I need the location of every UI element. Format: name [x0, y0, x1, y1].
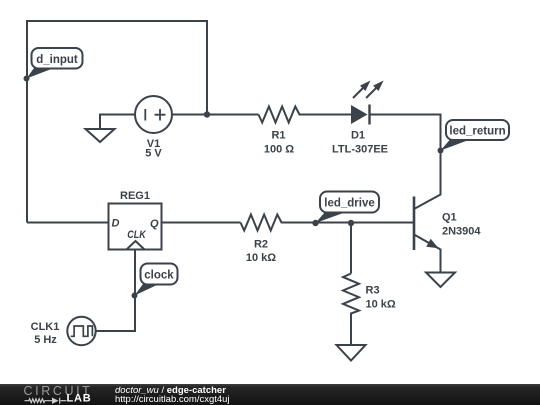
svg-text:LAB: LAB	[67, 393, 92, 405]
svg-text:R3: R3	[366, 285, 380, 297]
svg-text:10 kΩ: 10 kΩ	[246, 252, 276, 264]
svg-text:D: D	[112, 218, 120, 230]
svg-text:D1: D1	[351, 130, 365, 142]
svg-text:R2: R2	[254, 238, 268, 250]
svg-text:led_return: led_return	[449, 125, 505, 137]
svg-text:CLK: CLK	[127, 229, 146, 241]
svg-text:2N3904: 2N3904	[442, 226, 481, 238]
svg-text:REG1: REG1	[120, 190, 150, 202]
svg-text:100 Ω: 100 Ω	[264, 144, 294, 156]
svg-text:10 kΩ: 10 kΩ	[366, 299, 396, 311]
svg-text:Q1: Q1	[442, 212, 457, 224]
svg-text:R1: R1	[271, 130, 285, 142]
svg-text:CLK1: CLK1	[31, 321, 60, 333]
svg-text:d_input: d_input	[36, 54, 78, 66]
svg-text:5 Hz: 5 Hz	[34, 334, 57, 346]
svg-text:led_drive: led_drive	[324, 198, 375, 210]
svg-text:clock: clock	[144, 270, 174, 282]
svg-text:Q: Q	[150, 218, 159, 230]
svg-text:5 V: 5 V	[145, 148, 162, 160]
svg-text:http://circuitlab.com/cxgt4uj: http://circuitlab.com/cxgt4uj	[115, 394, 230, 405]
svg-text:LTL-307EE: LTL-307EE	[332, 144, 388, 156]
